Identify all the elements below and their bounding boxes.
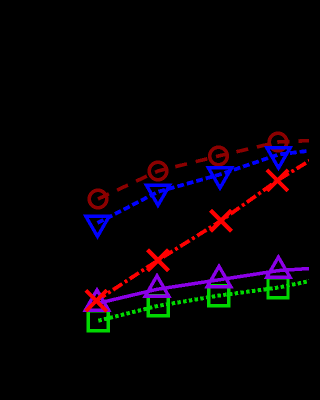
marker: purple triangle-up 1 (85, 290, 108, 310)
series 3 line: red dash-dot (X markers) (96, 159, 312, 301)
marker: dark-red circle 1 (89, 190, 107, 208)
marker: blue triangle-down 4 (267, 148, 290, 168)
marker: purple triangle-up 4 (267, 257, 290, 277)
marker: red X 1 (86, 290, 107, 311)
marker: green square 3 (209, 286, 229, 306)
marker: red X 3 (211, 210, 232, 231)
marker: dark-red circle 4 (269, 133, 287, 151)
marker: green square 4 (268, 278, 288, 298)
series 2 line: blue dense-dashed (triangles down) (98, 150, 313, 223)
marker: red X 4 (267, 170, 288, 191)
series 4 line: purple solid (triangles up) (97, 268, 312, 303)
marker: dark-red circle 3 (210, 147, 228, 165)
series 1 line: dark-red dashed (circles) (98, 141, 312, 200)
marker: dark-red circle 2 (149, 162, 167, 180)
marker: red X 2 (148, 250, 169, 271)
marker: purple triangle-up 3 (207, 266, 230, 286)
marker: blue triangle-down 2 (146, 185, 169, 205)
marker: purple triangle-up 2 (145, 276, 168, 296)
marker: green square 2 (148, 296, 168, 316)
series 5 line: green dotted (squares) (98, 281, 312, 321)
marker: blue triangle-down 1 (86, 216, 109, 236)
marker: blue triangle-down 3 (208, 168, 231, 188)
marker: green square 1 (88, 311, 108, 331)
